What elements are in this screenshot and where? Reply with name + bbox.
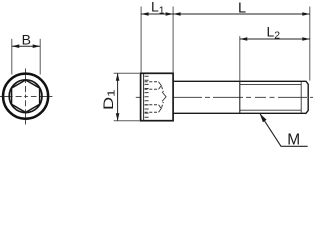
svg-text:D1: D1: [101, 89, 117, 110]
svg-text:M: M: [287, 131, 300, 148]
svg-text:B: B: [22, 32, 31, 48]
svg-text:L2: L2: [267, 24, 281, 42]
svg-text:L: L: [238, 0, 246, 16]
svg-text:L1: L1: [151, 0, 165, 16]
